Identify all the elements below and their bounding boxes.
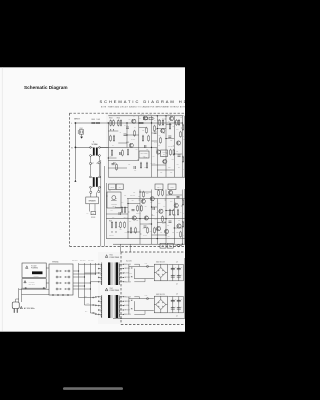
transistor Q603 bbox=[129, 143, 133, 147]
resistor R634 bbox=[173, 209, 175, 216]
T604 primary terminal 3 bbox=[98, 305, 102, 306]
connector pair row1 bbox=[93, 297, 97, 299]
wire taps to bridge2 bottom bbox=[134, 310, 154, 312]
node rail junction c bbox=[151, 122, 152, 123]
wire upper link d bbox=[166, 138, 174, 140]
wire terminal row 1 bbox=[73, 270, 79, 271]
wire stub 15 bbox=[128, 211, 129, 213]
bus wire vertical 3 bbox=[89, 263, 91, 313]
node upper n1 bbox=[157, 128, 158, 129]
relay block C bbox=[155, 184, 163, 190]
diode D607 bbox=[131, 300, 132, 301]
wire vertical x128.9 upper bbox=[128, 264, 130, 282]
resistor R655 edge bbox=[182, 124, 184, 131]
resistor R652 bbox=[135, 227, 137, 234]
mute block A bbox=[109, 184, 116, 190]
wire stub 16 bbox=[156, 229, 157, 231]
resistor R659 topright bbox=[149, 117, 153, 120]
page background bbox=[0, 67, 185, 332]
arrow input to T602 bbox=[74, 180, 76, 182]
wire bottom bus 2 bbox=[22, 293, 49, 295]
transistor Q606 bbox=[176, 141, 180, 145]
wire stub 10 bbox=[139, 199, 140, 201]
transformer T603 secondary winding bbox=[118, 264, 121, 285]
wire taps to bridge2 top bbox=[129, 298, 154, 300]
voltage selector block bbox=[32, 271, 43, 278]
resistor R641 bbox=[122, 149, 124, 156]
resistor R627 bbox=[120, 221, 122, 228]
wire tap jog upper a bbox=[134, 264, 139, 266]
resistor R643 bbox=[154, 125, 156, 132]
wire lower link h bbox=[174, 227, 182, 229]
capacitor C617 bbox=[145, 145, 146, 148]
node lower junction b bbox=[157, 238, 158, 239]
transistor Q604 bbox=[161, 129, 165, 133]
transformer T601 bbox=[90, 147, 101, 157]
wire upper link e bbox=[152, 140, 158, 142]
wire bridge1 out top bbox=[168, 264, 183, 266]
capacitor C605 bbox=[134, 166, 135, 169]
wire lower vertical x166 bbox=[165, 190, 167, 245]
wire taps to bridge1 top bbox=[129, 265, 154, 267]
wire vertical x178.8 upper bbox=[178, 265, 180, 281]
speaker terminal box bbox=[86, 192, 99, 203]
wire boxB left drop 1 bbox=[18, 288, 20, 302]
T604 secondary tap 3 bbox=[119, 305, 124, 306]
resistor R609 bbox=[127, 149, 129, 156]
svg-text:Schematic Diagram: Schematic Diagram bbox=[24, 85, 68, 90]
T603 primary terminal 4 bbox=[98, 277, 102, 278]
capacitor C629 bbox=[119, 212, 120, 215]
resistor R624 bbox=[111, 149, 113, 156]
jack pair J602 bbox=[90, 188, 100, 193]
svg-text:WOOF: WOOF bbox=[91, 217, 95, 219]
resistor R602 on input rail bbox=[96, 119, 100, 124]
wire outlet drop 2 bbox=[129, 244, 131, 252]
wire top supply rail bbox=[108, 115, 183, 117]
svg-text:C601: C601 bbox=[80, 128, 84, 130]
wire lower link i bbox=[128, 231, 140, 233]
wire bus to T603 row5 bbox=[90, 281, 98, 283]
wire tap jog lower a bbox=[134, 297, 139, 299]
resistor R605 bbox=[117, 118, 120, 127]
resistor R648 bbox=[124, 206, 126, 213]
node lower junction d bbox=[182, 244, 183, 245]
wire lower link j bbox=[152, 234, 167, 236]
power unit box A bbox=[22, 263, 46, 278]
svg-text:BLK: BLK bbox=[85, 311, 87, 313]
diode D601 bbox=[110, 129, 111, 130]
node lower n1 bbox=[139, 191, 140, 192]
label T604 POWER TRANS bbox=[110, 288, 120, 292]
wire tap jog lower b bbox=[134, 311, 145, 315]
resistor R639 bbox=[110, 135, 112, 142]
capacitor C613 bbox=[144, 226, 147, 227]
fuse F602 bbox=[145, 263, 149, 267]
resistor R647 bbox=[121, 206, 123, 213]
ac outlet block 1 bbox=[160, 243, 166, 248]
T604 primary terminal 4 bbox=[98, 309, 102, 310]
scan tint upper amp bbox=[106, 113, 185, 246]
resistor R642 bbox=[134, 130, 136, 137]
wire stub 18 bbox=[165, 221, 166, 223]
resistor R620 bbox=[173, 149, 175, 156]
wire edge rail lower bbox=[184, 189, 186, 244]
capacitor C619 bbox=[132, 210, 135, 211]
svg-text:SCHEMATIC DIAGRAM HD: SCHEMATIC DIAGRAM HD bbox=[100, 99, 186, 104]
wire bus to T604 row1 bbox=[79, 296, 98, 299]
terminal board box bbox=[49, 264, 73, 295]
wire speaker col down A bbox=[100, 160, 102, 246]
wire vertical x172.8 upper bbox=[172, 265, 174, 281]
svg-text:T1: T1 bbox=[93, 142, 95, 144]
capacitor C610 bbox=[154, 132, 157, 133]
wire lower vertical x151.5 bbox=[151, 190, 153, 245]
node lower n2 bbox=[127, 203, 128, 204]
node lower n8 bbox=[165, 234, 166, 235]
svg-text:R601: R601 bbox=[92, 119, 96, 121]
transistor Q609 bbox=[141, 199, 145, 203]
resistor R637 bbox=[147, 227, 149, 234]
wire terminal row 3 bbox=[73, 282, 91, 283]
wire bridge1 out bottom bbox=[168, 280, 183, 282]
warning triangle T604 bbox=[105, 288, 108, 291]
transistor Q613 bbox=[159, 209, 163, 213]
diode D602 bbox=[113, 129, 114, 130]
wire bus to T603 row3 bbox=[85, 272, 99, 274]
T603 secondary tap 5 bbox=[119, 281, 124, 282]
wire upper link f bbox=[131, 146, 157, 148]
resistor R645 bbox=[146, 162, 148, 169]
svg-text:SQ: SQ bbox=[93, 213, 95, 215]
wire stub 11 bbox=[152, 214, 153, 216]
resistor R657 edge bbox=[182, 199, 184, 206]
wire upper link n bbox=[118, 142, 127, 144]
transistor Q616 bbox=[174, 203, 178, 207]
wire lower bottom rail bbox=[106, 238, 186, 240]
warning triangle T603 bbox=[105, 255, 108, 258]
T603 secondary tap 1 bbox=[119, 264, 124, 265]
wire vertical x134.3 upper bbox=[133, 269, 135, 279]
relay block D bbox=[168, 184, 176, 190]
transformer T604 secondary winding bbox=[118, 297, 121, 318]
wire lower vertical x128 bbox=[127, 199, 129, 239]
capacitor C615 bbox=[169, 221, 172, 222]
capacitor C607 bbox=[168, 136, 171, 137]
wire upper link a bbox=[157, 128, 166, 130]
diode D604 bbox=[116, 231, 117, 232]
fuse F603 bbox=[145, 295, 149, 299]
wire input L vertical bbox=[74, 123, 76, 180]
capacitor C627 bbox=[177, 306, 182, 310]
home indicator bbox=[63, 387, 123, 390]
bus wire vertical 1 bbox=[78, 263, 80, 298]
transistor Q615 bbox=[164, 229, 168, 233]
wire T601 bottom left down bbox=[90, 156, 92, 162]
wire terminal row 2 bbox=[73, 276, 85, 277]
diode D603 bbox=[112, 231, 113, 232]
capacitor C611 bbox=[120, 152, 121, 155]
node lower n6 bbox=[174, 227, 175, 228]
transformer T603 primary winding bbox=[100, 264, 103, 285]
woofer head amp block bbox=[107, 192, 121, 208]
transistor Q601 bbox=[132, 119, 136, 123]
capacitor C628 bbox=[177, 197, 180, 198]
wire vertical x151.5 bbox=[151, 116, 153, 177]
node power bottom bbox=[120, 318, 121, 319]
node upper n5 bbox=[108, 157, 109, 158]
wire stub 13 bbox=[174, 214, 175, 216]
wire boxA left edge drop bbox=[19, 289, 22, 294]
capacitor C616 bbox=[124, 134, 127, 135]
wire vertical x138.8 bbox=[138, 116, 140, 161]
wire lower rail y198 bbox=[127, 198, 186, 200]
terminal pair 4 bbox=[56, 288, 70, 290]
wire bridge2 out top bbox=[168, 296, 183, 298]
wire vertical x157.3 bbox=[156, 116, 158, 177]
wire stub 17 bbox=[140, 233, 141, 235]
bridge rectifier D601 bbox=[154, 264, 167, 281]
svg-text:BRN 200V: BRN 200V bbox=[72, 260, 78, 262]
wire stub 9 bbox=[106, 195, 107, 197]
wire upper link g bbox=[174, 153, 182, 155]
resistor R644 bbox=[178, 119, 180, 126]
wire T601 bottom right down bbox=[98, 156, 100, 162]
mute block B bbox=[116, 184, 123, 190]
capacitor C624 bbox=[171, 299, 176, 303]
wire vertical x182.3 bbox=[181, 116, 183, 177]
terminal board bottom pins bbox=[52, 294, 68, 295]
resistor R617 bbox=[180, 131, 182, 138]
svg-text:120V 60Hz: 120V 60Hz bbox=[29, 284, 36, 286]
wire lower mid rail bbox=[106, 218, 186, 220]
resistor R628 bbox=[124, 221, 126, 228]
bridge rectifier D602 bbox=[154, 296, 167, 313]
T603 primary terminal 5 bbox=[98, 281, 102, 282]
resistor R623 bbox=[148, 135, 150, 142]
transformer T603 primary rail bbox=[101, 262, 103, 285]
resistor R658 edge bbox=[182, 221, 184, 228]
transistor Q611 bbox=[132, 216, 136, 220]
wire vertical x134.3 lower bbox=[133, 301, 135, 310]
resistor R614 bbox=[162, 119, 164, 126]
node upper n4 bbox=[165, 138, 166, 139]
T604 secondary tap 4 bbox=[119, 310, 124, 311]
node upper n8 bbox=[182, 122, 183, 123]
wire lower link d bbox=[152, 206, 158, 208]
label T601 NORMAL bbox=[92, 142, 99, 146]
resistor R616 bbox=[176, 119, 178, 126]
wire upper link l bbox=[139, 127, 147, 129]
resistor R656 edge bbox=[182, 156, 184, 163]
capacitor C622 bbox=[177, 267, 182, 271]
wire vertical x108 bbox=[107, 123, 109, 177]
top status bar (black) bbox=[0, 0, 185, 67]
diode D605 bbox=[131, 267, 132, 268]
page left edge line bbox=[1, 67, 3, 332]
ac plug P601 bbox=[12, 299, 19, 313]
svg-text:GRN: GRN bbox=[84, 296, 87, 298]
wire vertical x178.8 lower bbox=[178, 297, 180, 313]
T604 primary terminal 5 bbox=[98, 314, 102, 315]
resistor R615 bbox=[169, 123, 171, 130]
transformer T604 core bbox=[108, 295, 118, 318]
warning triangle AC bbox=[20, 306, 22, 308]
wire upper link k bbox=[108, 167, 127, 169]
wire stub 8 bbox=[173, 145, 174, 147]
wire vertical x174.3 bbox=[173, 116, 175, 177]
T604 secondary tap 2 bbox=[119, 301, 124, 302]
wire tap jog upper b bbox=[134, 279, 145, 282]
wire top rail L bbox=[75, 122, 183, 124]
wire boxB to terminal board bbox=[46, 282, 49, 284]
resistor R612 bbox=[113, 162, 117, 170]
resistor R625 bbox=[109, 220, 113, 228]
wire upper link c bbox=[127, 134, 139, 136]
wire terminal row 5 bbox=[73, 273, 96, 274]
wire upper bottom rail bbox=[108, 176, 186, 178]
wire bus to T604 row5 bbox=[90, 313, 98, 314]
wire lower link a bbox=[140, 191, 152, 193]
diode D608 bbox=[131, 308, 132, 309]
resistor R654 topright bbox=[144, 117, 148, 120]
wire edge rail upper bbox=[184, 116, 186, 177]
svg-text:INPUT: INPUT bbox=[74, 118, 80, 120]
power unit box B bbox=[22, 279, 46, 289]
resistor R636 bbox=[180, 231, 182, 238]
wire vertical x166 bbox=[165, 116, 167, 177]
wire lower vertical x140 bbox=[139, 190, 141, 245]
diode D606 bbox=[131, 276, 132, 277]
transformer T604 primary rail bbox=[101, 295, 103, 318]
wire vertical x172.8 lower bbox=[172, 297, 174, 313]
wire terminal row 4 bbox=[73, 288, 91, 289]
T603 primary terminal 1 bbox=[98, 264, 102, 265]
resistor R619 bbox=[170, 149, 172, 156]
wire stub 1 bbox=[157, 119, 158, 121]
resistor R632 bbox=[162, 189, 164, 196]
wire bus to T604 row3 bbox=[85, 304, 99, 307]
svg-text:BLU 200V: BLU 200V bbox=[80, 260, 86, 262]
bus wire vertical 2 bbox=[84, 263, 86, 305]
terminal pair 3 bbox=[56, 282, 70, 284]
resistor R646 bbox=[140, 162, 142, 169]
wire stub 5 bbox=[152, 132, 153, 134]
wire vertical x183.5 upper bbox=[183, 265, 185, 281]
node lower n5 bbox=[127, 231, 128, 232]
capacitor C603 bbox=[126, 127, 129, 128]
wire T601 sec to amp bbox=[100, 146, 108, 148]
transistor Q617 bbox=[177, 224, 181, 228]
node upper n3 bbox=[151, 147, 152, 148]
ac outlet block 2 bbox=[167, 243, 173, 248]
transformer T604 secondary rail bbox=[118, 295, 120, 318]
wire bottom bus 1 bbox=[22, 288, 49, 290]
wire vertical x127 bbox=[126, 123, 128, 147]
T603 secondary tap 2 bbox=[119, 268, 124, 269]
wire stub 2 bbox=[165, 118, 166, 120]
wire lower link g bbox=[140, 223, 152, 225]
T603 primary terminal 3 bbox=[98, 272, 102, 273]
wire stub 12 bbox=[165, 199, 166, 201]
node upper n6 bbox=[174, 153, 175, 154]
wire R input to T601 bbox=[75, 146, 90, 148]
wire lower vertical x174.3 bbox=[173, 199, 175, 245]
wire vertical x183.5 lower bbox=[183, 297, 185, 313]
terminal pair 2 bbox=[56, 276, 70, 278]
wire J601 to T602 bbox=[91, 164, 100, 177]
wire power bottom rail bbox=[113, 317, 186, 319]
node lower junction a bbox=[139, 218, 140, 219]
svg-text:WHT: WHT bbox=[87, 303, 90, 305]
capacitor C614 bbox=[153, 207, 154, 210]
resistor R630 bbox=[141, 205, 143, 212]
capacitor C601 bbox=[78, 128, 83, 134]
bottom bar (black) bbox=[0, 332, 185, 400]
transistor Q608 bbox=[156, 150, 160, 154]
resistor R618 bbox=[160, 137, 162, 144]
wire bridge2 out bottom bbox=[168, 312, 183, 314]
node rail junction a bbox=[108, 122, 109, 123]
resistor R622 bbox=[142, 135, 144, 142]
svg-text:TO 120V: TO 120V bbox=[31, 265, 36, 267]
T604 secondary tap 1 bbox=[119, 296, 124, 297]
capacitor C609 bbox=[178, 155, 181, 156]
svg-text:POWERED: POWERED bbox=[31, 268, 38, 270]
variable resistor VR601 bbox=[161, 150, 168, 157]
node lower n3 bbox=[151, 206, 152, 207]
wire bus to T603 row1 bbox=[79, 263, 98, 265]
wire taps to bridge1 bottom bbox=[134, 278, 154, 280]
power supply dashed outline bbox=[121, 252, 186, 324]
terminal B circle 2 bbox=[43, 287, 45, 289]
wire lower link e bbox=[166, 210, 174, 212]
wire stub 4 bbox=[181, 127, 182, 129]
capacitor C620 bbox=[171, 267, 176, 271]
transistor Q605 bbox=[169, 116, 173, 120]
wire lower link f bbox=[106, 213, 128, 215]
wire upper rail y160 bbox=[108, 160, 139, 162]
wire stub 14 bbox=[181, 205, 182, 207]
T603 secondary tap 3 bbox=[119, 273, 124, 274]
wire lower link b bbox=[166, 194, 182, 196]
wire lower vertical x157.3 bbox=[156, 199, 158, 245]
bus wire vertical 4 bbox=[95, 263, 97, 273]
wire upper link b bbox=[108, 130, 118, 132]
jack pair J601 bbox=[89, 162, 100, 165]
wire terminal row 6 bbox=[73, 285, 85, 286]
node lower junction c bbox=[165, 218, 166, 219]
wire lower vertical x182.3 bbox=[181, 190, 183, 245]
scan tint power bbox=[121, 252, 185, 324]
node R input bbox=[75, 147, 77, 149]
wire upper mid rail bbox=[100, 146, 132, 148]
T604 primary terminal 1 bbox=[98, 296, 102, 297]
wire upper link i bbox=[152, 164, 167, 166]
wire lower vertical x106 bbox=[105, 183, 107, 239]
resistor R621 bbox=[146, 127, 148, 134]
resistor R631 bbox=[158, 189, 160, 196]
ground below C601 bbox=[80, 134, 83, 138]
terminal pair 1 bbox=[56, 270, 70, 272]
resistor R601 on input rail bbox=[92, 119, 96, 124]
wire lower link c bbox=[128, 203, 140, 205]
resistor R633 bbox=[169, 209, 171, 216]
capacitor C618 bbox=[112, 164, 115, 165]
wire stub 3 bbox=[174, 121, 175, 123]
woofer symbol bbox=[90, 204, 96, 219]
node rail junction e bbox=[165, 115, 166, 116]
